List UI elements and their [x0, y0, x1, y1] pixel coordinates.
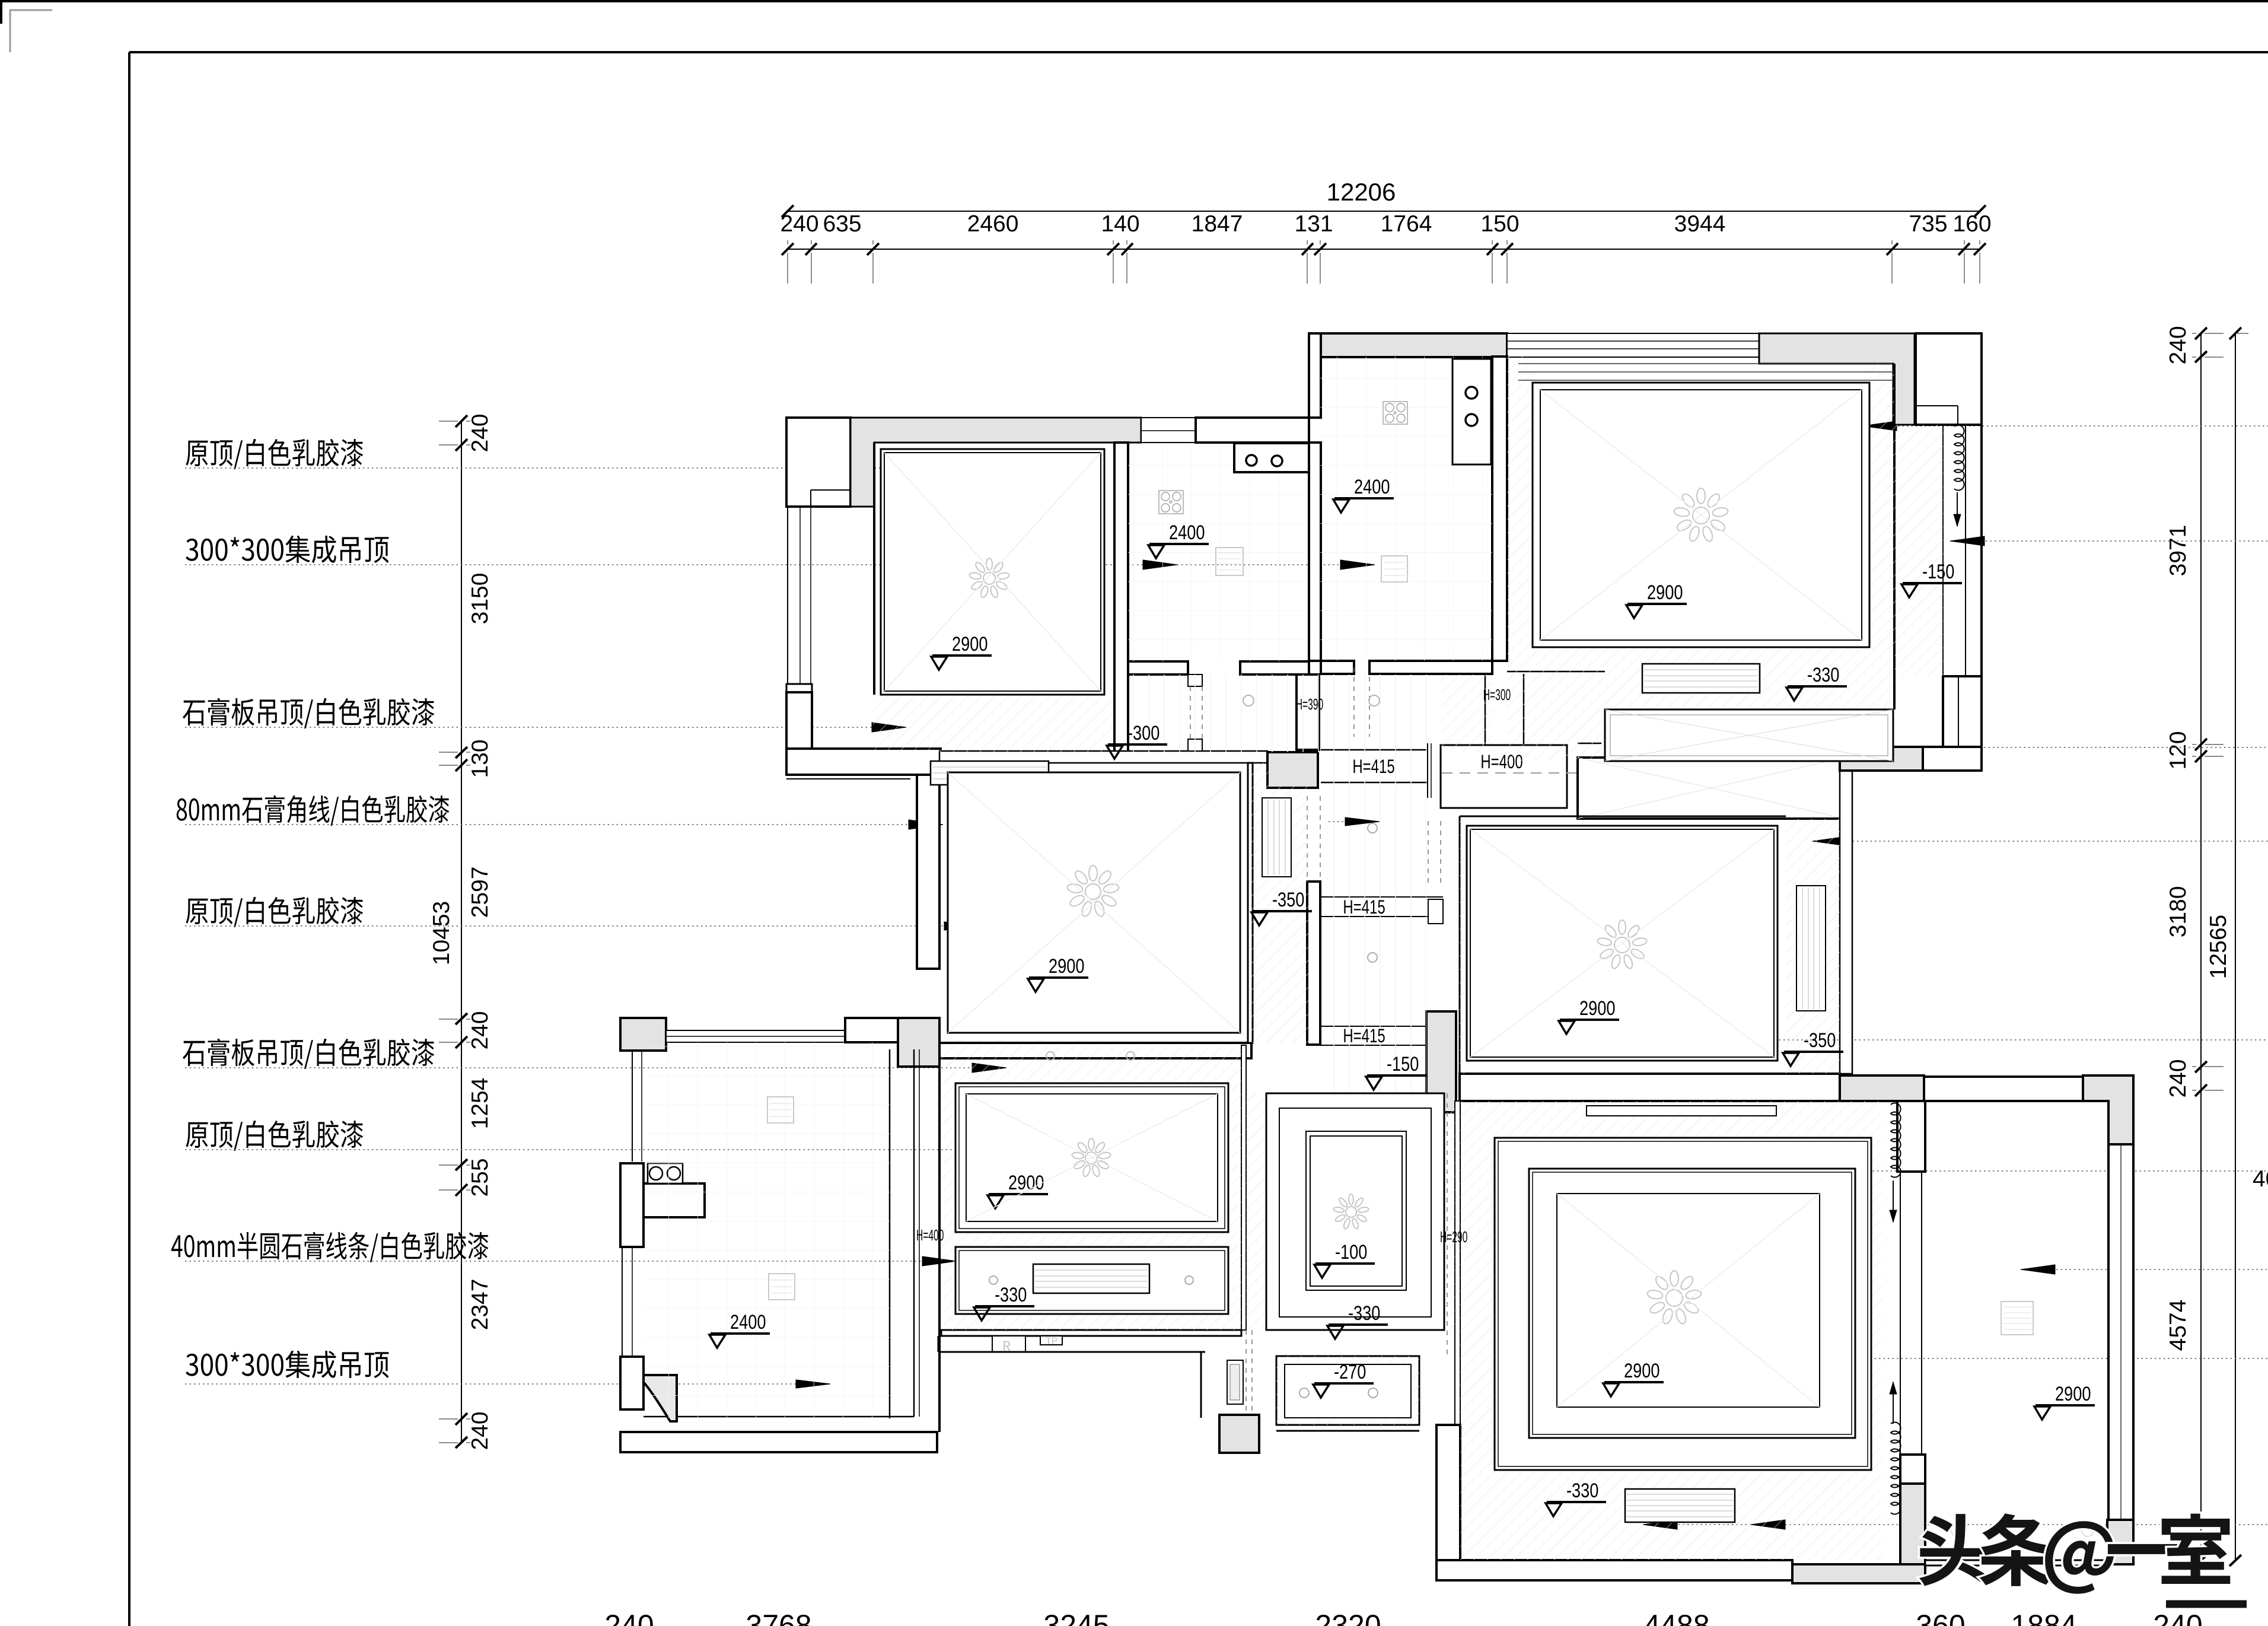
south wall line below dining [938, 1351, 1205, 1353]
page left edge corner stub [0, 0, 2, 24]
hatch living bottom band left [1507, 709, 1605, 761]
balcony left window lower [622, 1247, 623, 1357]
gray block top-right of room3 [1840, 747, 1923, 771]
right leader line y=718 [1862, 421, 2268, 431]
kitchen top wall [1196, 418, 1309, 443]
bath door dashed [1354, 667, 1369, 737]
svg-text:10453: 10453 [429, 901, 454, 965]
svg-text:2400: 2400 [730, 1310, 766, 1334]
hatch room3 left sliver [1460, 819, 1467, 1074]
balcony right wall thin pair [913, 1049, 915, 1417]
balcony tile grid [645, 1042, 890, 1418]
balcony corner shower [644, 1375, 677, 1421]
svg-text:255: 255 [467, 1158, 493, 1197]
dining ceiling rects [955, 1083, 1228, 1232]
level marker 2900 [1603, 1359, 1664, 1396]
wall between kitchen and bath (131) upper [1309, 333, 1321, 418]
bay window verticals [1942, 426, 1944, 676]
svg-text:1847: 1847 [1192, 211, 1243, 237]
master wardrobe strip vgrille [1262, 798, 1291, 877]
kitchen/bath dividing wall [1309, 443, 1321, 661]
curtain arrow [1957, 492, 1958, 526]
level marker -350 [1783, 1029, 1843, 1066]
svg-text:240: 240 [467, 1411, 493, 1450]
page top edge line [0, 0, 2268, 2]
room3 ceiling rect [1467, 826, 1778, 1061]
foyer right wall (to bedroom) [1455, 1101, 1460, 1425]
svg-text:160: 160 [1952, 211, 1991, 237]
svg-text:240: 240 [604, 1609, 654, 1626]
svg-text:2400: 2400 [1354, 475, 1390, 498]
balcony bottom wall band [620, 1432, 937, 1452]
white block right of room3 gray [1923, 747, 1982, 771]
balcony strip bottom lower line [786, 778, 910, 779]
svg-text:3944: 3944 [1674, 211, 1726, 237]
left label 80mm石膏角线/白色乳胶漆 [177, 798, 187, 821]
svg-text:240: 240 [2165, 1059, 2191, 1097]
top-left corner wall block [786, 418, 850, 507]
leader line y=1561 [185, 922, 979, 930]
bedroom A curtain grille [931, 761, 1049, 785]
corner block step lines [1916, 405, 1958, 406]
bath washer [1383, 402, 1407, 424]
top wall gray L (bedroom A) [850, 418, 1141, 507]
svg-text:2900: 2900 [1647, 581, 1683, 604]
curtain coil bedroom bottom [1891, 1423, 1901, 1514]
hatch room270 zone [1276, 1356, 1419, 1425]
dining bottom wall [941, 1330, 1241, 1336]
corridor vertical lines [1320, 752, 1426, 1093]
hatch living left strip [1507, 357, 1533, 647]
-270 door leaf [1230, 1364, 1240, 1400]
left label 原顶/白色乳胶漆 [186, 441, 208, 466]
H=300 beam line into living [1507, 671, 1605, 673]
dining fan [1072, 1138, 1111, 1178]
room3 top wall line [1460, 816, 1786, 817]
master bottom wall [939, 1043, 1251, 1058]
dining left wall line [938, 1067, 941, 1432]
left label 300*300集成吊顶 [186, 539, 198, 561]
balcony counter [644, 1183, 705, 1217]
svg-text:-100: -100 [1335, 1240, 1367, 1264]
svg-text:120: 120 [2165, 731, 2191, 769]
svg-text:H=415: H=415 [1352, 756, 1394, 777]
svg-text:635: 635 [823, 211, 861, 237]
svg-text:4488: 4488 [1643, 1609, 1709, 1626]
balcony left window upper [632, 1051, 633, 1162]
bedroom right wall top block [1897, 1101, 1925, 1172]
svg-text:3768: 3768 [746, 1609, 811, 1626]
svg-text:H=400: H=400 [916, 1227, 944, 1244]
top wall gray L (living right) [1759, 333, 1915, 425]
svg-text:-350: -350 [1272, 888, 1304, 911]
level marker 2400 [1333, 475, 1394, 513]
left label 原顶/白色乳胶漆 [186, 899, 208, 924]
svg-text:130: 130 [467, 739, 493, 778]
balcony BR square [2001, 1302, 2033, 1335]
room3 bottom wall band [1460, 1074, 1840, 1101]
svg-text:140: 140 [1101, 211, 1139, 237]
hatch bedroomA lower band [873, 695, 1113, 752]
main border vertical [128, 52, 130, 1626]
-270 room door dashed [1246, 1330, 1252, 1415]
corner block step lines [811, 489, 850, 491]
svg-text:-330: -330 [995, 1283, 1027, 1306]
level marker 2900 [1559, 997, 1619, 1034]
room3 right wall [1840, 771, 1852, 1074]
dining top faint downlights [1046, 1052, 1055, 1060]
foyer dashed left jamb [1447, 1093, 1448, 1356]
bath bottom wall [1321, 661, 1354, 674]
bedroomBR top curtain box [1587, 1106, 1776, 1116]
left label 石膏板吊顶/白色乳胶漆 [183, 701, 205, 726]
level marker -330 [1327, 1302, 1388, 1339]
svg-text:H=415: H=415 [1343, 1025, 1385, 1046]
gray pillar corridor bottom right [1426, 1011, 1456, 1112]
bottom-right bedroom left wall lower [1436, 1425, 1460, 1560]
hatch living bottom band [1507, 647, 1892, 709]
svg-text:-150: -150 [1387, 1052, 1419, 1075]
hatch master right strip [1251, 763, 1309, 1043]
hatch foyer zone [1246, 1093, 1455, 1330]
corridor right dashed jamb [1428, 821, 1441, 883]
level marker -300 [1107, 721, 1167, 759]
kitchen tile grid [1128, 445, 1307, 661]
balcony sink circles [648, 1163, 683, 1183]
room3 fan [1597, 920, 1648, 970]
level marker -100 [1314, 1240, 1375, 1278]
svg-text:H=390: H=390 [1296, 696, 1323, 713]
right overall dimension 12565 [2206, 327, 2248, 1566]
top dimension chain [780, 211, 1991, 284]
svg-text:-330: -330 [1807, 663, 1839, 686]
top-right corner wall block [1916, 333, 1982, 425]
svg-text:2900: 2900 [1624, 1359, 1659, 1382]
left label 40mm半圆石膏线条/白色乳胶漆 [171, 1235, 183, 1257]
right leader line y=1418 [1813, 836, 2268, 846]
svg-text:40: 40 [2253, 1166, 2268, 1192]
svg-text:-150: -150 [1922, 560, 1954, 583]
bedroom A fan [969, 558, 1010, 599]
svg-text:1884: 1884 [2011, 1609, 2076, 1626]
top-right section top wall: gray over bath [1321, 333, 1507, 357]
main border horizontal [129, 51, 2268, 53]
svg-text:12565: 12565 [2206, 915, 2231, 979]
hallway downlights [1243, 695, 1254, 706]
balcony BR corner gray L top [2083, 1075, 2133, 1144]
dining right wall [1241, 1045, 1246, 1330]
master ceiling rect [948, 772, 1240, 1033]
bottom dimension chain (clipped) [604, 1609, 2202, 1626]
hatch hallway right of beam [1441, 674, 1492, 752]
svg-text:360: 360 [1916, 1609, 1965, 1626]
level marker 2900 [988, 1171, 1048, 1208]
svg-text:-270: -270 [1334, 1360, 1366, 1383]
svg-text:3150: 3150 [467, 573, 493, 625]
balcony left wall mid pillar [620, 1163, 644, 1247]
living right interior wall [1893, 364, 1896, 709]
svg-text:2900: 2900 [1049, 954, 1084, 978]
balcony interior bottom line [644, 1416, 914, 1418]
master/corridor wall upper dashed [1307, 796, 1320, 882]
bedroomBR fan [1646, 1271, 1702, 1325]
level marker 2900 [1626, 581, 1687, 618]
right leader line y=1260 [1842, 743, 2268, 752]
wall below -270 room [1276, 1430, 1419, 1432]
balcony interior right line [889, 1049, 891, 1418]
corridor 80mm leader stub [1329, 817, 1380, 826]
left dimension chain [439, 413, 493, 1450]
balcony left wall bottom pillar [620, 1357, 644, 1409]
gray pillar balcony/dining corner [898, 1018, 939, 1067]
leader line y=952 [185, 560, 1375, 569]
balcony top window [666, 1030, 845, 1042]
balcony BL square [769, 1274, 795, 1300]
svg-text:-330: -330 [1348, 1302, 1380, 1325]
leader line y=789 [185, 464, 937, 472]
left column upper square [767, 1097, 794, 1123]
living TV band [1605, 709, 1893, 761]
svg-text:131: 131 [1294, 211, 1333, 237]
svg-text:240: 240 [2165, 326, 2191, 364]
right leader line y=1974 [1655, 1166, 2268, 1176]
corridor H=400 box [1441, 743, 1601, 808]
hatch bay strip [1894, 425, 1943, 676]
balcony top-left gray pillar [620, 1018, 666, 1051]
bedroom right window verticals [1900, 1172, 1901, 1455]
level marker -150 [1366, 1052, 1426, 1090]
leader line y=1390 [185, 820, 943, 829]
bath tile grid [1320, 357, 1492, 661]
curtain coil bedroom top [1891, 1103, 1901, 1177]
left label 300*300集成吊顶 [186, 1354, 198, 1376]
wall bedroomA/kitchen (140) [1114, 443, 1128, 752]
corridor H=415 beam box [1321, 743, 1431, 798]
hallway vertical lines below kitchen [1128, 674, 1441, 752]
balcony top white block [845, 1018, 898, 1042]
balcony BR bottom wall [1925, 1560, 2107, 1565]
svg-text:240: 240 [467, 1011, 493, 1049]
left wall lower pillar [786, 692, 812, 749]
svg-text:3971: 3971 [2165, 525, 2191, 577]
svg-text:240: 240 [2153, 1609, 2202, 1626]
R box under dining wall [992, 1336, 1025, 1352]
svg-text:240: 240 [780, 211, 818, 237]
room3 left wall line [1459, 816, 1461, 1074]
kitchen vent square [1216, 548, 1243, 575]
bedroomBR nested rects [1495, 1138, 1871, 1470]
kitchen door dashed opening [1188, 674, 1202, 751]
right leader line y=2140 [2021, 1265, 2268, 1274]
level marker 2900 [1028, 954, 1088, 992]
svg-text:H=290: H=290 [1440, 1229, 1467, 1246]
level marker -150 [1901, 560, 1962, 597]
right inner dimension chain [2165, 326, 2224, 1566]
svg-text:2900: 2900 [1579, 997, 1615, 1020]
svg-text:240: 240 [467, 413, 493, 452]
level marker -270 [1313, 1360, 1374, 1398]
right leader line y=2570 [1643, 1520, 2268, 1529]
-270 room inner rect [1285, 1364, 1411, 1418]
gray corner registration mark [10, 10, 52, 52]
svg-text:2597: 2597 [467, 867, 493, 918]
master/corridor wall solid [1307, 882, 1320, 1045]
curtain coil (living bay) [1954, 425, 1964, 491]
left wall small block [786, 684, 812, 692]
svg-text:-300: -300 [1127, 721, 1160, 744]
leader line y=1800 [185, 1063, 1006, 1073]
small wall block corridor right [1428, 899, 1443, 924]
svg-text:2460: 2460 [967, 211, 1019, 237]
bay bottom corner block [1943, 676, 1982, 771]
-270 room door white block [1227, 1360, 1243, 1404]
bedroom A bottom wall (130) [939, 751, 1267, 763]
top wall window (living) [1507, 333, 1759, 357]
master right wall [1248, 763, 1253, 1043]
bedroom right wall gray block [1900, 1484, 1925, 1564]
kitchen bottom wall right part [1240, 661, 1309, 674]
level marker 2400 [709, 1310, 770, 1348]
level marker 2900 [931, 632, 992, 670]
gray block bottom-right of room3 [1840, 1075, 1924, 1101]
svg-text:4574: 4574 [2165, 1300, 2191, 1351]
living/bath wall (150) [1492, 357, 1507, 661]
gray pillar top of corridor [1267, 752, 1318, 788]
right exterior wall line [1980, 425, 1983, 771]
south wall gray part [1792, 1564, 1925, 1583]
living ceiling rect [1533, 383, 1869, 647]
right leader line y=912 [1950, 536, 2268, 546]
foyer nested rects [1266, 1093, 1444, 1330]
svg-text:2400: 2400 [1169, 521, 1205, 544]
hatch bedroomBR zone [1460, 1101, 1882, 1560]
bedroom A ceiling rect [881, 449, 1104, 695]
svg-text:1254: 1254 [467, 1078, 493, 1129]
master bedroom left wall [917, 775, 939, 969]
bath cabinet with downlights [1452, 359, 1491, 464]
svg-text:2900: 2900 [2055, 1382, 2091, 1405]
svg-text:-350: -350 [1804, 1029, 1836, 1052]
building south wall (bedroom) [1436, 1560, 1792, 1580]
room3 strip vgrille [1796, 886, 1826, 1011]
faint ceiling X marks [884, 453, 1101, 691]
top overall dimension 12206 [782, 178, 1986, 217]
bath vent square [1381, 556, 1407, 582]
svg-text:12206: 12206 [1327, 178, 1396, 206]
wall down from south line to pillar [1200, 1352, 1202, 1418]
balcony BR right wall [2108, 1144, 2133, 1520]
svg-text:H=300: H=300 [1483, 686, 1511, 704]
living AC grille [1642, 664, 1760, 693]
living curtain box lines [1518, 364, 1892, 380]
wall stub below kitchen/bath divider [1297, 674, 1319, 750]
-270 room walls [1276, 1356, 1419, 1425]
right leader line y=1753 [1650, 1036, 2268, 1044]
foyer fan [1333, 1194, 1369, 1230]
left label 石膏板吊顶/白色乳胶漆 [183, 1041, 205, 1066]
corridor downlights [1368, 823, 1377, 833]
level marker 2400 [1148, 521, 1209, 558]
svg-text:2347: 2347 [467, 1279, 493, 1331]
leader line y=2333 [185, 1380, 830, 1388]
bottom-right balcony top wall [1924, 1077, 2083, 1101]
level marker -350 [1251, 888, 1312, 925]
master fan [1066, 865, 1119, 918]
bedroom A left interior line [873, 443, 875, 695]
watermark underline of last glyph [2166, 1600, 2247, 1608]
watermark 头条@一室 [1919, 1513, 2230, 1593]
svg-text:1764: 1764 [1381, 211, 1432, 237]
svg-text:150: 150 [1480, 211, 1519, 237]
bath door jamb lines below [1485, 674, 1486, 746]
level marker -330 [974, 1283, 1034, 1320]
balcony strip bottom wall band [786, 749, 941, 775]
leader line y=2126 [185, 1256, 957, 1266]
living fan [1673, 488, 1728, 543]
wardrobe band top of room3 [1578, 758, 1845, 819]
svg-text:3180: 3180 [2165, 886, 2191, 938]
leader line y=1938 [185, 1145, 1006, 1154]
bedroomBR AC grille [1625, 1489, 1735, 1522]
leader line y=1226 [185, 723, 906, 732]
gray pillar left of -270 room [1219, 1415, 1259, 1453]
svg-text:2320: 2320 [1315, 1609, 1381, 1626]
level marker 2900 [2034, 1382, 2095, 1420]
bedroom right wall white block [1900, 1455, 1925, 1484]
TP box under dining wall [1040, 1336, 1062, 1345]
balcony strip left window upper [787, 507, 788, 684]
dining -330 band [955, 1247, 1228, 1314]
level marker -330 [1546, 1479, 1606, 1516]
right leader line y=2290 [1754, 1354, 2268, 1363]
dining AC grille [1033, 1264, 1149, 1293]
kitchen stove [1159, 491, 1183, 514]
svg-text:2900: 2900 [952, 632, 988, 656]
svg-text:-330: -330 [1566, 1479, 1598, 1502]
level marker -330 [1786, 663, 1847, 701]
hatch room3 right strip [1786, 819, 1840, 1074]
hatch living right strip [1869, 364, 1894, 647]
svg-text:H=415: H=415 [1343, 896, 1385, 918]
left label 原顶/白色乳胶漆 [186, 1122, 208, 1148]
bath bottom wall right [1369, 661, 1492, 674]
kitchen bottom wall left part [1128, 661, 1188, 674]
balcony BR faint circles [1951, 1525, 1963, 1536]
svg-text:735: 735 [1909, 211, 1947, 237]
hatch dining zone [941, 1045, 1241, 1330]
kitchen counter with sink circles [1234, 443, 1309, 472]
svg-text:3245: 3245 [1043, 1609, 1109, 1626]
balcony BR gray block bottom [2107, 1520, 2133, 1564]
top wall window segment [1141, 418, 1196, 443]
corridor beam lines H=415 zones [1320, 897, 1443, 1045]
